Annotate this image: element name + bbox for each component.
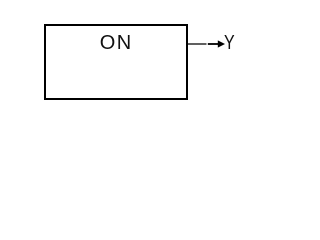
arrowhead [218, 40, 225, 47]
label ON [46, 32, 188, 55]
arrow shaft [208, 43, 219, 45]
state box ON [44, 24, 188, 100]
node Y [224, 32, 235, 55]
wire segment from box [188, 43, 207, 45]
wire [0, 0, 299, 139]
